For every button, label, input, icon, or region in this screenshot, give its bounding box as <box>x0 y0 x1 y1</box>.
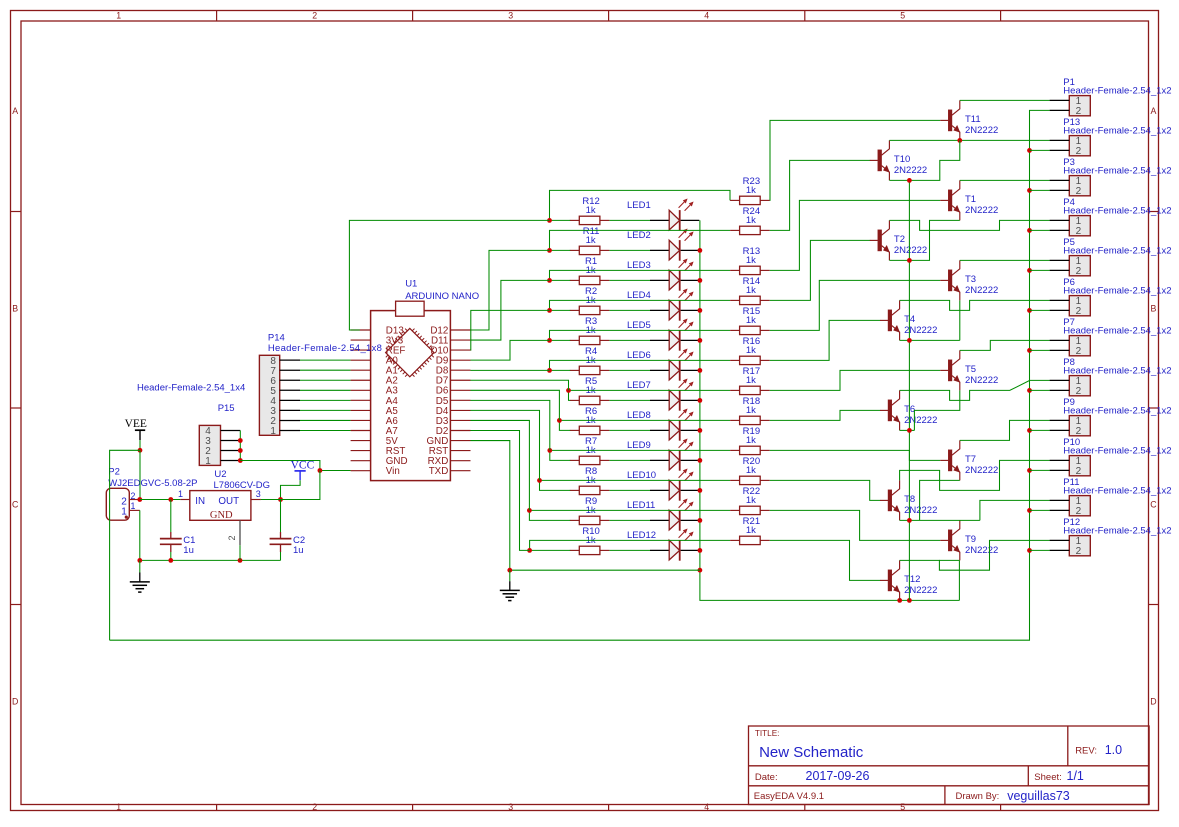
svg-text:Header-Female-2.54_1x2: Header-Female-2.54_1x2 <box>1063 325 1171 336</box>
svg-text:VCC: VCC <box>291 459 315 471</box>
junction bus T10 emitter <box>907 178 912 183</box>
wire OUT line <box>261 499 320 501</box>
junction pin2 bus P5 <box>1027 268 1032 273</box>
svg-text:2017-09-26: 2017-09-26 <box>806 769 870 783</box>
junction row8 <box>557 418 562 423</box>
wire R13 to T1 base <box>770 200 941 270</box>
junction cathode row2 <box>698 248 703 253</box>
svg-text:1k: 1k <box>746 285 756 296</box>
resistor R22 1k <box>730 486 770 514</box>
junction cathode row6 <box>698 368 703 373</box>
svg-text:Header-Female-2.54_1x2: Header-Female-2.54_1x2 <box>1063 245 1171 256</box>
wire bus x909 <box>908 180 910 600</box>
junction VCC-OUT <box>278 497 283 502</box>
svg-text:EasyEDA V4.9.1: EasyEDA V4.9.1 <box>754 791 824 802</box>
svg-text:ARDUINO NANO: ARDUINO NANO <box>405 291 479 302</box>
svg-text:LED4: LED4 <box>627 290 651 301</box>
capacitor C2 1u <box>270 500 306 561</box>
junction cathode row8 <box>698 428 703 433</box>
svg-text:T3: T3 <box>965 274 976 285</box>
svg-text:T5: T5 <box>965 364 976 375</box>
wire row2 branch to R24 <box>550 230 731 250</box>
wire D12 to row2 <box>471 250 550 330</box>
resistor R10 1k <box>570 526 610 554</box>
svg-text:B: B <box>12 304 18 314</box>
svg-text:1.0: 1.0 <box>1105 743 1122 757</box>
wire T12 collector link to T9 emitter <box>939 559 959 561</box>
resistor R20 1k <box>730 456 770 484</box>
svg-text:T11: T11 <box>965 114 981 125</box>
svg-text:LED3: LED3 <box>627 260 651 271</box>
svg-text:Date:: Date: <box>755 772 778 783</box>
svg-text:Header-Female-2.54_1x2: Header-Female-2.54_1x2 <box>1063 285 1171 296</box>
LED LED3 <box>627 259 699 291</box>
wire row3 branch <box>550 270 731 280</box>
power VCC symbol <box>291 459 315 480</box>
svg-text:4: 4 <box>704 11 709 21</box>
wire A2 to P14 <box>300 379 351 381</box>
svg-text:2N2222: 2N2222 <box>965 125 998 136</box>
junction P15 pin1 <box>238 458 243 463</box>
transistor T4 <box>880 300 937 340</box>
svg-text:1k: 1k <box>746 345 756 356</box>
wire T11 collector to P1 pin1 <box>960 99 1050 101</box>
junction row6 <box>547 368 552 373</box>
wire A4 to P14 <box>300 399 351 401</box>
junction T11 emitter <box>957 138 962 143</box>
svg-text:REV:: REV: <box>1075 745 1097 756</box>
resistor R17 1k <box>730 366 770 394</box>
junction VCC-Vin <box>318 468 323 473</box>
LED LED11 <box>627 499 699 531</box>
transistor T7 <box>940 440 998 480</box>
junction pin2 bus P7 <box>1027 348 1032 353</box>
wire P15 common <box>239 431 241 461</box>
LED LED10 <box>627 469 699 501</box>
resistor R24 1k <box>730 206 770 234</box>
transistor T12 <box>880 560 937 600</box>
junction row7 <box>566 388 571 393</box>
wire R21 to T12 base <box>770 540 881 580</box>
svg-text:1: 1 <box>270 426 276 437</box>
svg-text:1k: 1k <box>746 495 756 506</box>
svg-text:LED11: LED11 <box>627 500 655 511</box>
junction T12 emitter <box>897 598 902 603</box>
svg-text:Header-Female-2.54_1x2: Header-Female-2.54_1x2 <box>1063 205 1171 216</box>
LED LED2 <box>627 229 699 261</box>
header P8 Header-Female-2.54_1x2 <box>1050 357 1172 397</box>
junction pin2 bus P13 <box>1027 148 1032 153</box>
svg-text:LED9: LED9 <box>627 440 651 451</box>
wire T1 collector to P3 pin1 <box>960 179 1050 181</box>
wire P2 pin1 down <box>139 510 141 560</box>
svg-text:2N2222: 2N2222 <box>965 205 998 216</box>
transistor T1 <box>940 180 998 220</box>
svg-text:LED10: LED10 <box>627 470 656 481</box>
wire R6 to LED8 <box>609 429 650 431</box>
svg-text:Header-Female-2.54_1x2: Header-Female-2.54_1x2 <box>1063 125 1171 136</box>
svg-text:GND: GND <box>210 510 233 521</box>
svg-text:2: 2 <box>1076 226 1082 237</box>
svg-text:2: 2 <box>1076 346 1082 357</box>
junction pin2 bus P12 <box>1027 548 1032 553</box>
wire row9 branch <box>550 449 730 451</box>
junction row9 <box>547 448 552 453</box>
resistor R3 1k <box>570 316 610 344</box>
svg-text:Header-Female-2.54_1x8: Header-Female-2.54_1x8 <box>268 343 382 354</box>
junction rail C1 <box>168 558 173 563</box>
svg-text:5: 5 <box>900 802 905 812</box>
wire T12 collector to P12 pin1 <box>900 540 1050 570</box>
wire R11 to LED2 <box>609 249 650 251</box>
svg-text:A: A <box>1150 106 1156 116</box>
svg-text:Header-Female-2.54_1x2: Header-Female-2.54_1x2 <box>1063 85 1171 96</box>
svg-text:T1: T1 <box>965 194 976 205</box>
transistor T5 <box>940 350 998 390</box>
svg-text:TITLE:: TITLE: <box>755 729 780 738</box>
wire R9 to LED11 <box>609 519 650 521</box>
resistor R19 1k <box>730 426 770 454</box>
svg-text:1u: 1u <box>183 545 194 556</box>
ground symbol left <box>139 560 141 572</box>
svg-text:1u: 1u <box>293 545 304 556</box>
wire D7 to row7 <box>471 380 569 390</box>
wire T4 collector hop to P6 pin1 <box>900 300 1050 310</box>
svg-text:LED2: LED2 <box>627 230 651 241</box>
svg-text:2N2222: 2N2222 <box>894 245 927 256</box>
svg-text:2: 2 <box>1076 506 1082 517</box>
header P4 Header-Female-2.54_1x2 <box>1050 197 1172 237</box>
transistor T9 <box>940 520 998 560</box>
wire VEE to bottom bus riser <box>110 450 140 640</box>
wire VEE stem <box>139 440 141 450</box>
IC U2 L7806CV-DG <box>178 469 270 545</box>
header P11 Header-Female-2.54_1x2 <box>1050 477 1172 517</box>
capacitor C1 1u <box>160 500 196 561</box>
column ticks top/bottom <box>216 11 218 22</box>
svg-text:LED6: LED6 <box>627 350 651 361</box>
power VEE symbol <box>125 418 147 440</box>
svg-text:4: 4 <box>704 802 709 812</box>
wire R22 to T9 base <box>770 510 941 540</box>
wire R17 to T5 base <box>770 370 941 390</box>
resistor R5 1k <box>570 376 610 404</box>
wire R12 to LED1 <box>609 219 650 221</box>
svg-text:T12: T12 <box>904 574 920 585</box>
wire T9 emitter down to bottom bus <box>958 560 960 600</box>
wire D9 to row5 <box>471 340 550 360</box>
wire R15 to T3 base <box>770 280 941 330</box>
svg-text:C: C <box>12 500 19 510</box>
junction row4 <box>547 308 552 313</box>
wire A3 to P14 <box>300 389 351 391</box>
wire pin2 P7 <box>1030 349 1050 351</box>
resistor R18 1k <box>730 396 770 424</box>
junction cathode row9 <box>698 458 703 463</box>
resistor R15 1k <box>730 306 770 334</box>
junction row3 <box>547 278 552 283</box>
svg-text:2: 2 <box>1076 266 1082 277</box>
junction cathode row12 <box>698 548 703 553</box>
wire D2 to row12 <box>471 431 530 551</box>
svg-text:VEE: VEE <box>125 418 147 430</box>
resistor R9 1k <box>570 496 610 524</box>
wire D3 to row11 <box>471 420 530 510</box>
svg-text:OUT: OUT <box>218 496 239 507</box>
junction row11 <box>527 508 532 513</box>
svg-text:1k: 1k <box>746 215 756 226</box>
wire D4 to row10 <box>471 410 540 480</box>
junction cathode row3 <box>698 278 703 283</box>
wire pin2 P5 <box>1030 269 1050 271</box>
wire T4 emitter line <box>900 339 960 341</box>
svg-text:IN: IN <box>195 496 205 507</box>
header P10 Header-Female-2.54_1x2 <box>1050 437 1172 477</box>
wire T10 collector to P13 pin1 <box>889 139 1049 141</box>
svg-text:1: 1 <box>205 456 211 467</box>
wire R7 to LED9 <box>609 459 650 461</box>
svg-text:T9: T9 <box>965 534 976 545</box>
junction VEE <box>138 448 143 453</box>
wire row5 branch <box>550 330 731 340</box>
svg-text:Header-Female-2.54_1x4: Header-Female-2.54_1x4 <box>137 383 245 394</box>
svg-text:2: 2 <box>227 535 237 540</box>
wire R10 to LED12 <box>609 549 650 551</box>
wire R23 to T11 base <box>770 120 941 200</box>
wire R14 to T2 base <box>770 240 871 300</box>
wire pin2 P8 <box>1030 389 1050 391</box>
svg-text:1: 1 <box>116 11 121 21</box>
wire pin2 P10 <box>1030 469 1050 471</box>
svg-text:LED8: LED8 <box>627 410 651 421</box>
svg-text:1k: 1k <box>586 205 596 216</box>
svg-text:A: A <box>12 106 18 116</box>
resistor R2 1k <box>570 286 610 314</box>
resistor R23 1k <box>730 176 770 204</box>
resistor R1 1k <box>570 256 610 284</box>
wire D11 to row3 <box>471 280 550 340</box>
svg-text:1k: 1k <box>746 255 756 266</box>
wire A1 to P14 <box>300 369 351 371</box>
svg-text:TXD: TXD <box>429 466 449 477</box>
transistor T2 <box>870 220 927 260</box>
wire pairA staircase <box>889 140 959 180</box>
wire row7 branch <box>569 389 731 391</box>
resistor R11 1k <box>570 226 610 254</box>
svg-text:2: 2 <box>312 11 317 21</box>
wire T9 collector to P11 pin1 <box>980 500 1050 520</box>
wire R19 to T7 base <box>770 450 941 460</box>
junction rail U2 GND <box>238 558 243 563</box>
junction P15 pin3 <box>238 438 243 443</box>
svg-text:Header-Female-2.54_1x2: Header-Female-2.54_1x2 <box>1063 405 1171 416</box>
wire row6 branch <box>550 360 731 370</box>
wire D8 to row6 <box>471 369 550 371</box>
wire power ground rail <box>140 559 281 561</box>
svg-text:3: 3 <box>508 11 513 21</box>
wire T1 emitter link <box>889 220 959 260</box>
resistor R6 1k <box>570 406 610 434</box>
resistor R21 1k <box>730 516 770 544</box>
transistor T3 <box>940 260 998 300</box>
svg-text:U2: U2 <box>214 469 226 480</box>
row ticks left/right <box>11 211 22 213</box>
wire header pin2 bus x1030 <box>110 110 1050 640</box>
svg-text:Vin: Vin <box>386 466 400 477</box>
wire D10 to row4 <box>471 310 550 350</box>
wire pin2 P3 <box>1030 189 1050 191</box>
wire R18 to T6 base <box>770 410 881 420</box>
header P6 Header-Female-2.54_1x2 <box>1050 277 1172 317</box>
junction bus T6 emitter <box>907 428 912 433</box>
junction cathode row10 <box>698 488 703 493</box>
wire D13 to row1 <box>349 220 549 330</box>
svg-text:1: 1 <box>130 501 135 511</box>
wire row10 branch <box>540 479 731 481</box>
svg-text:New Schematic: New Schematic <box>759 744 864 761</box>
svg-text:1k: 1k <box>746 375 756 386</box>
junction rail P2 <box>137 558 142 563</box>
svg-text:B: B <box>1150 304 1156 314</box>
wire T8 emitter line / T9 collector <box>900 519 980 521</box>
wire pin2 P11 <box>1030 509 1050 511</box>
svg-text:U1: U1 <box>405 279 417 290</box>
header P9 Header-Female-2.54_1x2 <box>1050 397 1172 437</box>
resistor R8 1k <box>570 466 610 494</box>
svg-text:WJ2EDGVC-5.08-2P: WJ2EDGVC-5.08-2P <box>108 478 197 489</box>
svg-text:1k: 1k <box>746 435 756 446</box>
svg-text:D: D <box>1150 697 1156 707</box>
resistor R16 1k <box>730 336 770 364</box>
svg-text:LED1: LED1 <box>627 200 651 211</box>
wire row12 branch to R21 <box>530 540 730 550</box>
svg-text:1: 1 <box>116 802 121 812</box>
junction pin2 bus P9 <box>1027 428 1032 433</box>
wire T5 emitter to T6 emitter line <box>914 390 959 430</box>
svg-text:Sheet:: Sheet: <box>1034 772 1061 783</box>
junction pin2 bus P3 <box>1027 188 1032 193</box>
header P14 Header-Female-2.54_1x8 <box>259 332 382 437</box>
junction pin2 bus P6 <box>1027 308 1032 313</box>
svg-text:2: 2 <box>1076 306 1082 317</box>
wire R1 to LED3 <box>609 279 650 281</box>
svg-text:LED7: LED7 <box>627 380 651 391</box>
wire R16 to T4 base <box>770 320 881 360</box>
wire T3 emitter down to T4 emitter line <box>959 300 961 340</box>
junction ground <box>507 568 512 573</box>
wire A7 to P14 <box>300 430 351 432</box>
junction cathode row7 <box>698 398 703 403</box>
wire T3 collector to P5 pin1 <box>960 259 1050 261</box>
title block <box>749 726 1150 805</box>
wire A0 to P14 <box>300 359 351 361</box>
LED LED7 <box>627 379 699 411</box>
wire R3 to LED5 <box>609 339 650 341</box>
wire row11 branch <box>529 509 730 511</box>
wire U2 GND stem green <box>239 545 241 560</box>
wire row8 branch <box>559 419 730 421</box>
wire row4 branch <box>550 300 731 310</box>
transistor T6 <box>880 390 937 430</box>
svg-text:C: C <box>1150 500 1157 510</box>
resistor R14 1k <box>730 276 770 304</box>
svg-text:L7806CV-DG: L7806CV-DG <box>214 480 271 491</box>
wire Vin to VCC <box>320 470 351 472</box>
svg-text:3: 3 <box>256 489 261 499</box>
svg-text:5: 5 <box>900 11 905 21</box>
svg-text:1k: 1k <box>746 405 756 416</box>
svg-text:2N2222: 2N2222 <box>965 465 998 476</box>
svg-text:D: D <box>12 697 18 707</box>
wire R4 to LED6 <box>609 369 650 371</box>
wire T8 collector to P10 pin1 <box>900 460 1050 490</box>
wire ground link <box>510 569 700 571</box>
svg-text:veguillas73: veguillas73 <box>1007 789 1070 803</box>
junction P2 pin2 / IN line <box>137 497 142 502</box>
resistor R4 1k <box>570 346 610 374</box>
svg-text:T10: T10 <box>894 154 910 165</box>
wire pin2 P4 <box>1030 229 1050 231</box>
resistor R12 1k <box>570 196 610 224</box>
svg-text:2: 2 <box>1076 466 1082 477</box>
svg-text:3: 3 <box>508 802 513 812</box>
wire IN line <box>140 499 181 501</box>
svg-text:2: 2 <box>1076 106 1082 117</box>
junction bus T4 emitter <box>907 338 912 343</box>
svg-text:Header-Female-2.54_1x2: Header-Female-2.54_1x2 <box>1063 165 1171 176</box>
svg-text:1k: 1k <box>746 525 756 536</box>
junction bus T2 emitter <box>907 258 912 263</box>
junction cathode-ground <box>698 568 703 573</box>
resistor R7 1k <box>570 436 610 464</box>
junction row5 <box>547 338 552 343</box>
wire A6 to P14 <box>300 419 351 421</box>
svg-text:Drawn By:: Drawn By: <box>956 791 1000 802</box>
svg-text:2N2222: 2N2222 <box>965 375 998 386</box>
transistor T11 <box>940 100 998 140</box>
junction row10 <box>537 478 542 483</box>
wire pin2 P9 <box>1030 429 1050 431</box>
wire pin2 P13 <box>1030 149 1050 151</box>
svg-text:2: 2 <box>312 802 317 812</box>
wire VEE down to P2 pin2 <box>139 450 141 499</box>
svg-text:1k: 1k <box>746 185 756 196</box>
wire A5 to P14 <box>300 409 351 411</box>
wire VCC stem <box>281 480 301 499</box>
svg-text:2: 2 <box>1076 146 1082 157</box>
wire R5 to LED7 <box>609 399 650 401</box>
junction P15 pin2 <box>238 448 243 453</box>
svg-text:P15: P15 <box>218 403 235 414</box>
ground symbol center <box>509 570 511 581</box>
junction pin2 bus P11 <box>1027 508 1032 513</box>
svg-text:1k: 1k <box>586 235 596 246</box>
wire pin2 P6 <box>1030 309 1050 311</box>
wire VCC node down to OUT line <box>281 471 320 500</box>
wire T7 collector to P9 pin1 <box>960 420 1050 440</box>
junction row1 <box>547 218 552 223</box>
svg-text:P14: P14 <box>268 332 285 343</box>
junction pin2 bus P4 <box>1027 228 1032 233</box>
wire T2 collector hop to P4 pin1 <box>889 220 1049 230</box>
svg-text:1k: 1k <box>746 465 756 476</box>
wire R20 to T8 base <box>770 480 881 500</box>
svg-text:1/1: 1/1 <box>1067 769 1084 783</box>
wire R2 to LED4 <box>609 309 650 311</box>
junction C1 top <box>168 497 173 502</box>
svg-text:2: 2 <box>1076 546 1082 557</box>
wire T5 collector to P7 pin1 <box>960 340 1050 350</box>
